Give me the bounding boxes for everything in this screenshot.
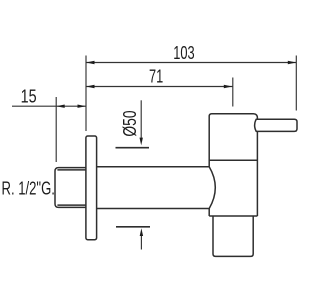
svg-text:R. 1/2"G.: R. 1/2"G. (2, 179, 55, 199)
svg-text:71: 71 (149, 66, 163, 86)
cartridge seam line (209, 159, 257, 161)
arrow 103 right (288, 61, 297, 64)
body bottom edge (209, 215, 257, 217)
arrow 103 left (86, 61, 95, 64)
svg-text:103: 103 (173, 43, 194, 63)
supply pipe top edge (97, 166, 210, 168)
union nut outline (55, 168, 86, 208)
arrow d50 down (140, 138, 143, 146)
extension line nut left face (15 dim) (55, 97, 57, 162)
dimension line 103 (86, 62, 296, 64)
arrow d50 up (140, 228, 143, 236)
leader line diameter 50 bottom (140, 233, 142, 250)
svg-text:Ø50: Ø50 (120, 110, 140, 136)
arrow 71 right (224, 85, 233, 88)
wall flange plate (86, 136, 97, 240)
supply pipe bottom edge (97, 208, 210, 210)
dimension line 15 (56, 105, 86, 107)
handle lever (255, 119, 297, 131)
arrow 15 left (56, 105, 64, 108)
svg-text:15: 15 (21, 86, 37, 106)
union nut chamfer line top (57, 169, 86, 171)
extension line lever tip (103 dim) (295, 56, 297, 111)
extension line wall (left reference for 103/71/15) (85, 56, 87, 132)
aerator nozzle (213, 216, 253, 256)
pipe-body intersection arc (209, 167, 215, 209)
extension line body axis (71 dim) (232, 78, 234, 107)
reference tick top (plate) (116, 147, 150, 149)
tap body outline (209, 114, 257, 216)
leader line diameter 50 top (140, 100, 142, 140)
dimension leader 15 (12, 105, 56, 107)
union nut chamfer line bottom (57, 204, 86, 206)
reference tick bottom (plate) (116, 226, 150, 228)
arrow 71 left (86, 85, 95, 88)
arrow 15 right (78, 105, 87, 108)
dimension line 71 (86, 86, 233, 88)
